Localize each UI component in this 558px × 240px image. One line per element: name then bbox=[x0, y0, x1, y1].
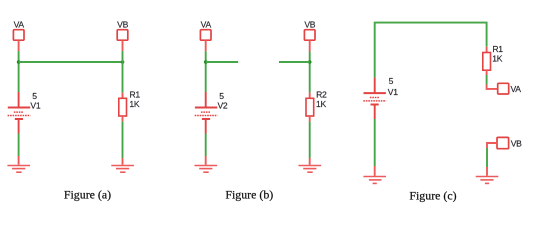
wire (VA to battery, green) bbox=[18, 51, 20, 92]
wire (battery to ground, green) bbox=[374, 119, 376, 166]
wire (battery to ground, green) bbox=[205, 134, 207, 157]
wire (red, into ground) bbox=[309, 158, 311, 165]
wire (green, short) bbox=[486, 75, 488, 85]
wire (VB to R2, green) bbox=[309, 52, 311, 93]
resistor R1 (fig c) bbox=[483, 53, 491, 71]
svg-text:1K: 1K bbox=[316, 99, 326, 109]
wire (red corner from VB) bbox=[487, 143, 497, 148]
svg-text:Figure (a): Figure (a) bbox=[64, 188, 111, 202]
svg-text:1K: 1K bbox=[129, 99, 139, 109]
wire (red, into ground) bbox=[18, 156, 20, 165]
ground (fig b right) bbox=[299, 166, 322, 173]
resistor R2 bbox=[306, 98, 314, 116]
wire (VB pin, red) bbox=[309, 40, 311, 51]
node junction left bbox=[17, 60, 21, 64]
svg-text:VB: VB bbox=[511, 138, 522, 148]
terminal VB (fig c) bbox=[497, 137, 509, 148]
wire (horizontal, green) bbox=[19, 61, 123, 63]
wire (red, into ground) bbox=[374, 166, 376, 176]
wire (red corner into VA) bbox=[487, 85, 498, 89]
svg-text:VA: VA bbox=[511, 84, 522, 94]
wire (stub right, green) bbox=[206, 61, 238, 63]
ground (fig c battery) bbox=[363, 177, 386, 184]
wire (battery to ground, green) bbox=[18, 134, 20, 157]
wire (R1 top pin, red) bbox=[122, 93, 124, 99]
svg-text:VA: VA bbox=[14, 20, 25, 30]
wire (R2 to ground, green) bbox=[309, 122, 311, 158]
terminal VA bbox=[13, 30, 24, 41]
ground (fig b left) bbox=[195, 166, 218, 173]
terminal VB bbox=[117, 30, 128, 41]
wire (R2 top pin, red) bbox=[309, 93, 311, 99]
battery V1 bbox=[8, 92, 31, 134]
node junction right bbox=[121, 60, 125, 64]
node junction (fig b left) bbox=[204, 60, 208, 64]
resistor R1 bbox=[119, 98, 127, 116]
svg-text:Figure (c): Figure (c) bbox=[409, 188, 456, 202]
wire (R1 to ground, green) bbox=[122, 122, 124, 158]
svg-text:VA: VA bbox=[201, 20, 212, 30]
wire (R1 top pin, red) bbox=[486, 47, 488, 53]
svg-text:Figure (b): Figure (b) bbox=[225, 188, 273, 202]
wire (VB to ground, green) bbox=[486, 148, 488, 167]
svg-text:V1: V1 bbox=[30, 100, 40, 110]
svg-text:VB: VB bbox=[117, 20, 128, 30]
wire (VB pin, red) bbox=[122, 40, 124, 51]
ground (fig c VB) bbox=[476, 177, 499, 184]
svg-text:V2: V2 bbox=[218, 100, 228, 110]
terminal VA (fig c) bbox=[498, 83, 509, 94]
wire (red, into ground) bbox=[205, 156, 207, 165]
svg-text:V1: V1 bbox=[388, 87, 398, 97]
wire (R2 bottom pin, red) bbox=[309, 116, 311, 122]
terminal VA (fig b) bbox=[200, 30, 211, 41]
svg-text:5: 5 bbox=[389, 76, 394, 86]
battery V1 (fig c) bbox=[363, 78, 386, 119]
wire (VA to battery, green) bbox=[205, 51, 207, 92]
wire (red, into ground) bbox=[122, 158, 124, 165]
wire (top rail, green) bbox=[375, 23, 487, 78]
node junction (fig b right) bbox=[308, 60, 312, 64]
terminal VB (fig b) bbox=[304, 30, 315, 41]
battery V2 bbox=[195, 92, 218, 134]
wire (VA pin, red) bbox=[18, 40, 20, 51]
svg-text:1K: 1K bbox=[492, 53, 502, 63]
ground (fig a left) bbox=[7, 166, 30, 173]
wire (VB to R1, green) bbox=[122, 51, 124, 93]
wire (VA pin, red) bbox=[205, 40, 207, 51]
wire (red, into ground) bbox=[486, 167, 488, 176]
ground (fig a right) bbox=[111, 166, 134, 173]
wire (stub left, green) bbox=[279, 61, 310, 63]
wire (R1 bottom pin, red) bbox=[122, 116, 124, 122]
wire (R1 bottom pin, red) bbox=[486, 70, 488, 75]
svg-text:VB: VB bbox=[304, 20, 315, 30]
